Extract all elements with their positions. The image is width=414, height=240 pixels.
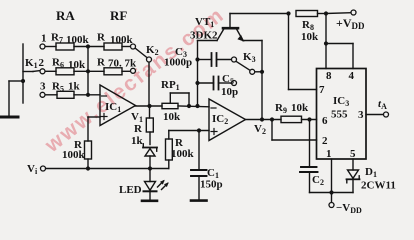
svg-text:2: 2 <box>322 135 328 147</box>
svg-text:7: 7 <box>319 84 325 96</box>
svg-text:10k: 10k <box>291 102 309 114</box>
svg-text:555: 555 <box>331 109 348 121</box>
svg-text:R: R <box>97 57 106 69</box>
svg-text:3: 3 <box>40 81 46 93</box>
svg-text:1k: 1k <box>131 135 144 147</box>
svg-text:4: 4 <box>349 70 355 82</box>
svg-text:1000p: 1000p <box>164 57 192 69</box>
svg-text:5: 5 <box>350 148 356 160</box>
svg-text:10k: 10k <box>68 59 86 71</box>
svg-text:150p: 150p <box>200 179 223 191</box>
svg-text:70. 7k: 70. 7k <box>108 58 137 70</box>
svg-text:8: 8 <box>326 70 332 82</box>
svg-text:100k: 100k <box>62 149 86 161</box>
svg-text:100k: 100k <box>66 34 90 46</box>
svg-text:1k: 1k <box>68 81 81 93</box>
svg-text:10k: 10k <box>163 111 181 123</box>
svg-text:1: 1 <box>326 148 332 160</box>
svg-text:RA: RA <box>56 8 75 23</box>
svg-text:RF: RF <box>110 8 127 23</box>
svg-text:10p: 10p <box>221 86 238 98</box>
svg-text:100k: 100k <box>110 34 134 46</box>
svg-text:LED: LED <box>119 184 142 196</box>
svg-text:R: R <box>134 123 143 135</box>
svg-text:100k: 100k <box>171 148 195 160</box>
svg-text:3DK2: 3DK2 <box>190 30 218 42</box>
svg-text:2: 2 <box>39 57 45 69</box>
svg-text:3: 3 <box>358 109 364 121</box>
svg-text:2CW11: 2CW11 <box>361 180 396 192</box>
svg-text:1: 1 <box>41 33 47 45</box>
svg-text:6: 6 <box>322 115 328 127</box>
svg-text:R: R <box>97 32 106 44</box>
svg-text:10k: 10k <box>301 31 319 43</box>
